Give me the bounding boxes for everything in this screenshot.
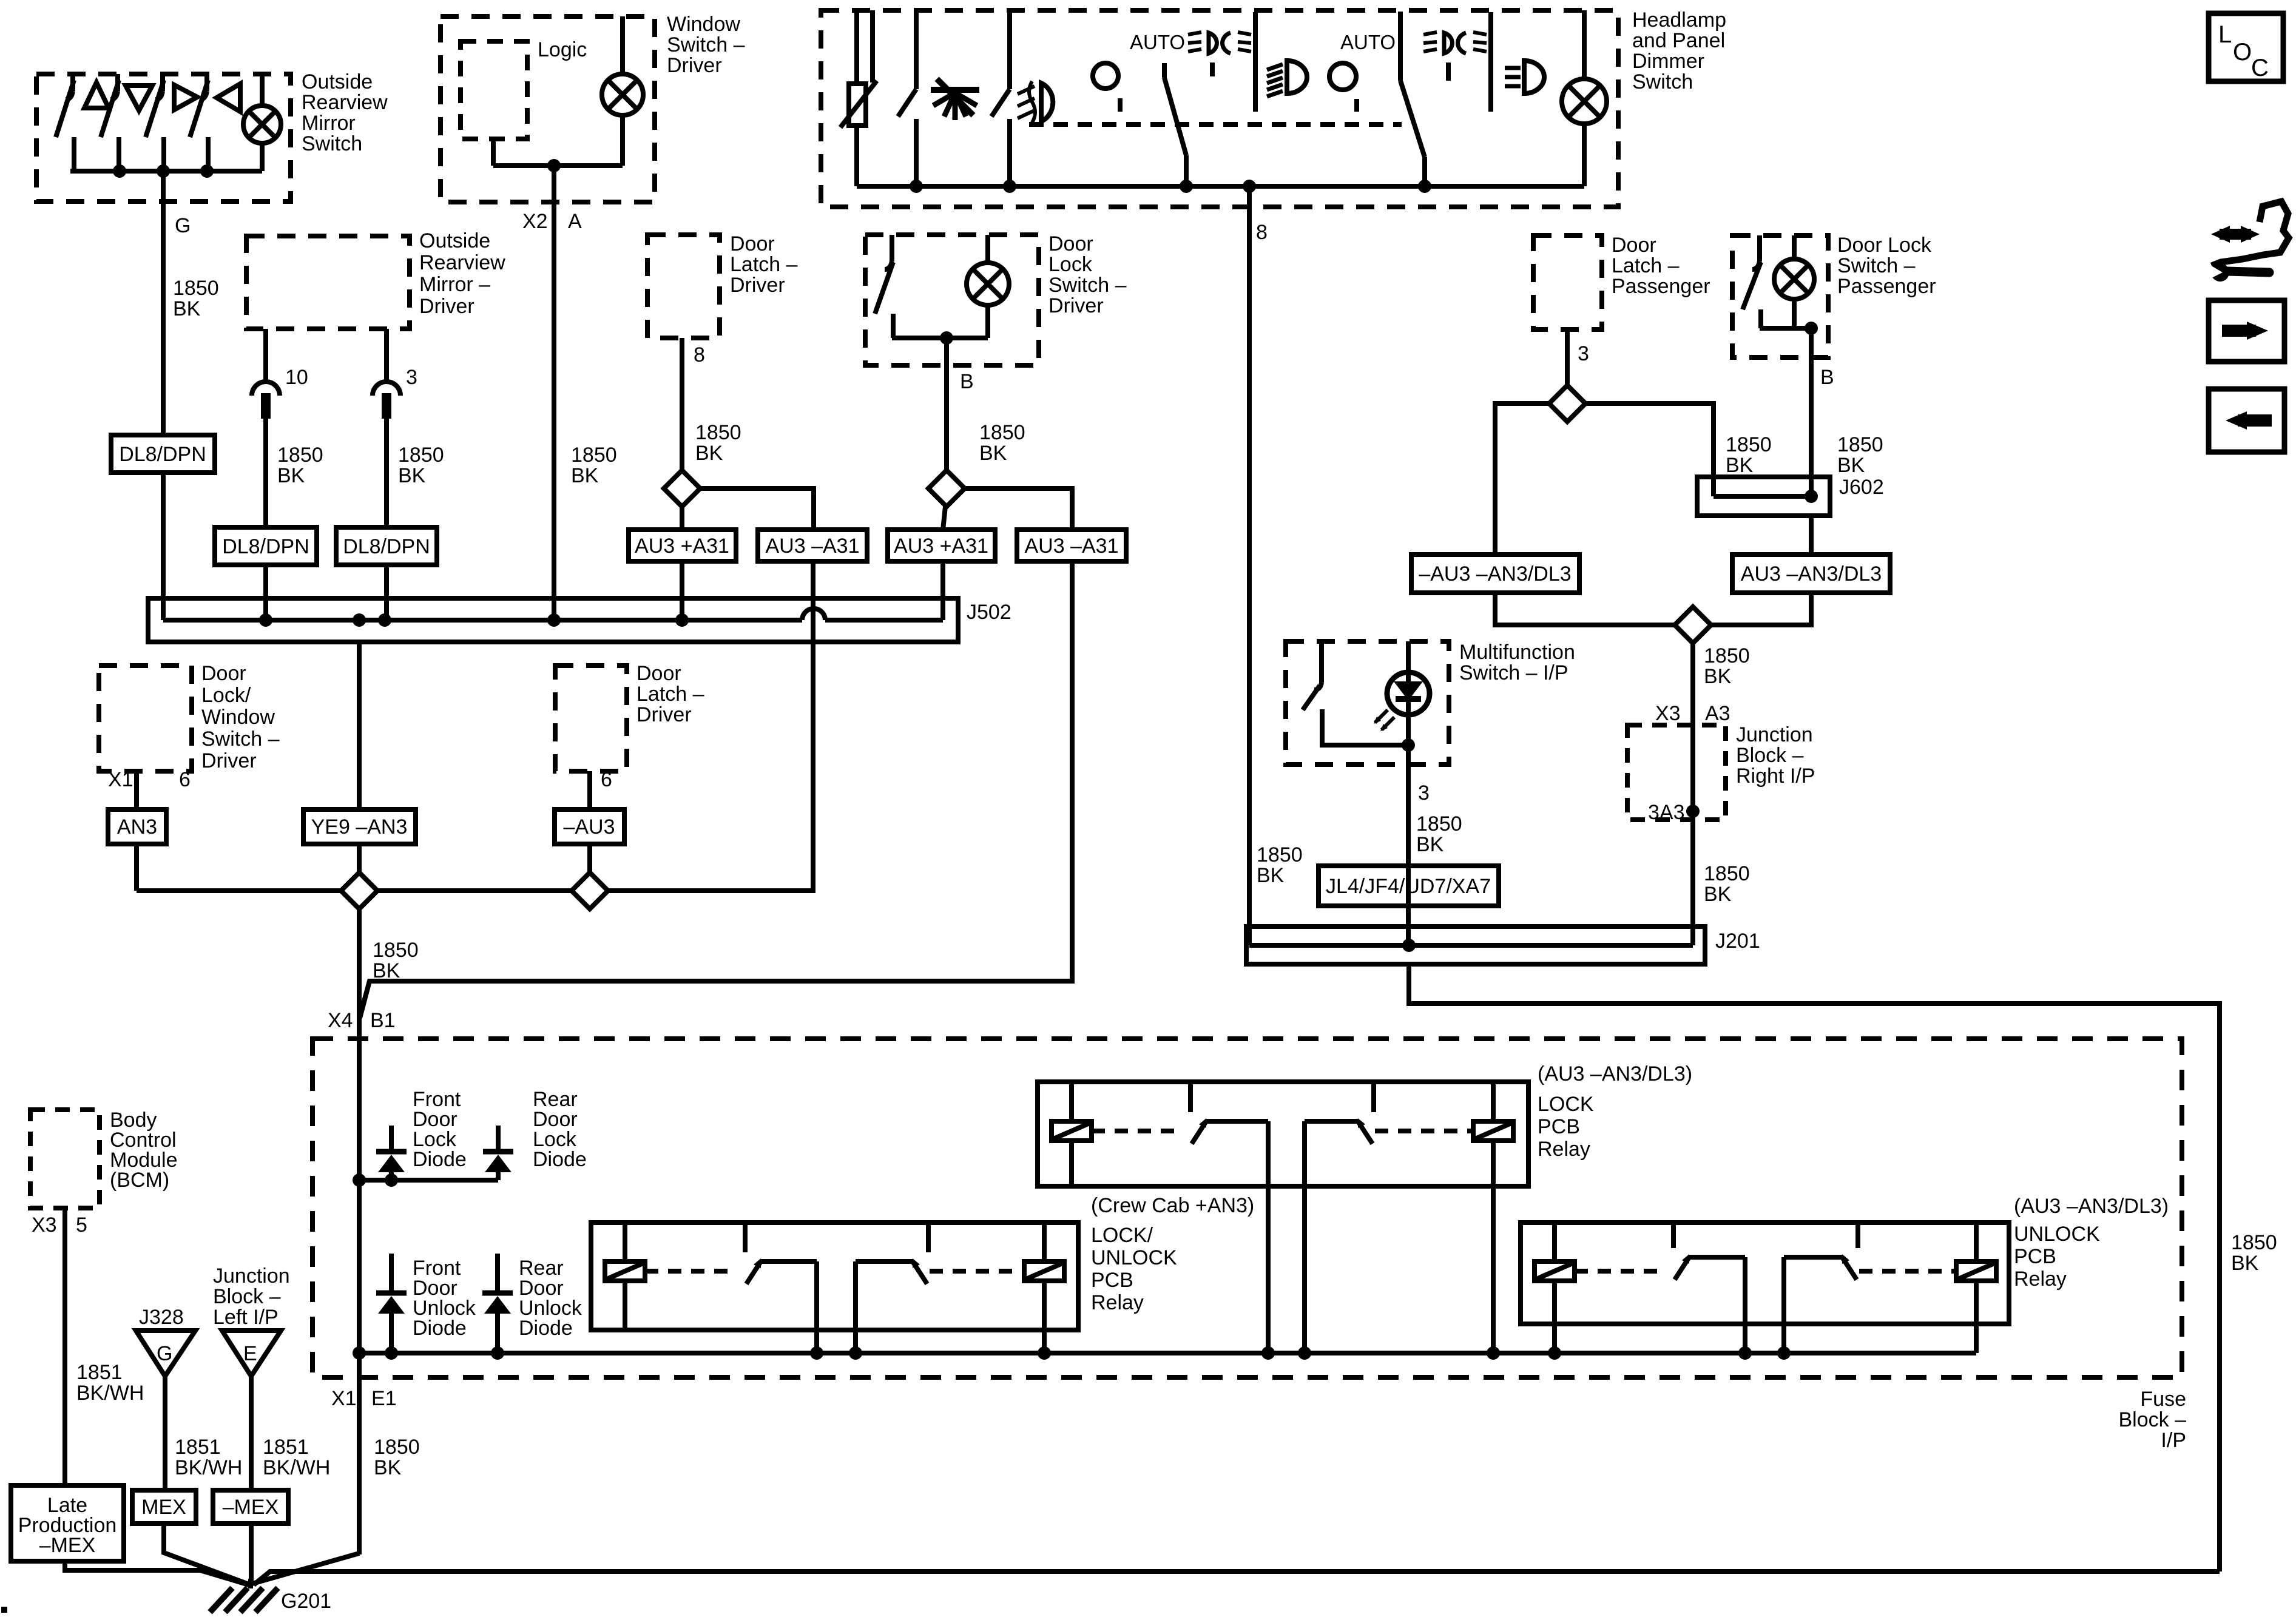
svg-text:1850: 1850 [1704, 862, 1750, 885]
svg-text:(AU3 –AN3/DL3): (AU3 –AN3/DL3) [2014, 1195, 2169, 1218]
splice diamond [1549, 385, 1585, 422]
headlamp switch illumination lamp [1562, 79, 1607, 124]
svg-text:Outside: Outside [419, 229, 490, 252]
svg-text:BK: BK [1257, 864, 1285, 887]
svg-text:3: 3 [1418, 781, 1430, 805]
connector JL4/JF4/UD7/XA7 [1319, 866, 1499, 906]
svg-text:LOCK: LOCK [1538, 1093, 1594, 1116]
wire YE9 to diamond [357, 844, 362, 874]
svg-text:Block –: Block – [1736, 744, 1804, 767]
svg-text:PCB: PCB [1538, 1115, 1580, 1138]
wire -AU3-AN3/DL3 to diamond [1495, 593, 1675, 625]
svg-text:1850: 1850 [1837, 433, 1883, 456]
svg-text:BK/WH: BK/WH [76, 1382, 144, 1405]
wire to 6 [587, 771, 592, 809]
late production -MEX box [11, 1485, 124, 1561]
junction dot [1038, 1346, 1051, 1360]
wire J201 to ground loop [1409, 964, 2220, 1571]
svg-text:Window: Window [667, 13, 740, 36]
rear door unlock diode [495, 1254, 500, 1293]
svg-text:1850: 1850 [1416, 812, 1462, 836]
body control module (dashed box) [30, 1110, 100, 1208]
svg-text:B: B [1820, 366, 1834, 389]
svg-text:Relay: Relay [2014, 1268, 2067, 1291]
svg-text:A3: A3 [1705, 702, 1730, 725]
junction dot [1298, 1346, 1311, 1360]
J201 internal bus [1247, 927, 1252, 945]
junction dot [547, 613, 561, 627]
window switch internal bus [493, 163, 623, 168]
door lock switch driver (dashed box) [865, 235, 1039, 365]
junction dot [157, 164, 170, 178]
svg-text:X1: X1 [108, 768, 133, 791]
junction dot [1180, 180, 1193, 193]
svg-text:X3: X3 [32, 1214, 57, 1237]
ground G201 symbol [248, 1579, 253, 1588]
splice pack J602 [1697, 477, 1830, 516]
svg-text:Junction: Junction [213, 1264, 290, 1288]
svg-text:Door Lock: Door Lock [1837, 234, 1932, 257]
svg-text:1850: 1850 [173, 277, 219, 300]
LOCK relay common wire 2 [1302, 1186, 1307, 1353]
svg-text:1850: 1850 [374, 1436, 420, 1459]
svg-text:–MEX: –MEX [39, 1534, 96, 1557]
connector AU3 -AN3/DL3 [1732, 555, 1890, 593]
junction dot [378, 613, 391, 627]
svg-text:Diode: Diode [413, 1148, 467, 1171]
svg-text:J201: J201 [1715, 930, 1760, 953]
window switch driver (dashed box) [441, 16, 655, 202]
wire to AU3-A31 2 [965, 488, 1072, 530]
svg-text:1850: 1850 [1704, 644, 1750, 667]
parking indicator [1329, 63, 1356, 90]
lock switch driver contact [890, 235, 894, 261]
svg-text:Block –: Block – [2119, 1408, 2187, 1431]
svg-text:UNLOCK: UNLOCK [1091, 1246, 1177, 1269]
junction dot [1402, 939, 1416, 952]
svg-text:G201: G201 [281, 1590, 331, 1613]
DRL indicator symbol 2 [1444, 33, 1452, 53]
svg-text:J502: J502 [967, 601, 1011, 624]
connector AN3 [108, 809, 166, 844]
UNLOCK relay common wire 2 [1781, 1324, 1786, 1353]
LOCK relay common wire 1 [1266, 1186, 1271, 1353]
svg-text:AU3 –AN3/DL3: AU3 –AN3/DL3 [1741, 562, 1882, 586]
svg-text:1851: 1851 [263, 1436, 309, 1459]
svg-text:J328: J328 [139, 1306, 184, 1329]
connector AU3 +A31 [629, 530, 736, 561]
svg-text:6: 6 [601, 768, 612, 791]
svg-text:Diode: Diode [533, 1148, 587, 1171]
fog indicator [1093, 63, 1118, 89]
wire to AU3+A31 2 [943, 507, 945, 530]
svg-text:Driver: Driver [419, 295, 474, 318]
junction connector E (triangle) [222, 1331, 281, 1376]
svg-text:Door: Door [1612, 234, 1656, 257]
svg-text:Lock/: Lock/ [201, 684, 251, 707]
junction dot [385, 1346, 398, 1360]
junction dot [1686, 805, 1700, 818]
svg-text:Latch –: Latch – [730, 253, 798, 276]
junction dot [810, 1346, 823, 1360]
car direction icon [2220, 229, 2251, 240]
svg-text:1850: 1850 [979, 421, 1025, 444]
svg-text:Driver: Driver [730, 274, 785, 297]
svg-text:BK: BK [1704, 883, 1732, 906]
connector AU3 -A31 2 [1017, 530, 1126, 561]
wire 8 to J201 [1247, 186, 1252, 945]
svg-text:Passenger: Passenger [1837, 275, 1936, 298]
connector MEX [132, 1490, 196, 1524]
wire latch pin 3 [1565, 329, 1570, 387]
lock diode bus [359, 1178, 498, 1183]
svg-text:Logic: Logic [538, 38, 587, 61]
wire AU3-A31 2 down [360, 561, 1072, 1018]
svg-text:(BCM): (BCM) [110, 1169, 169, 1192]
svg-text:Relay: Relay [1091, 1291, 1144, 1314]
splice pack J201 [1246, 927, 1705, 964]
rear door lock diode [496, 1126, 501, 1152]
door latch driver lower (dashed box) [555, 666, 627, 771]
splice diamond [1675, 607, 1711, 643]
mirror switch arrow down [126, 86, 152, 110]
page mark [1, 1607, 7, 1613]
J502 internal bus [161, 598, 166, 620]
wire X4 to unlock bus [357, 1180, 362, 1353]
wire pin10 to J502 [263, 565, 268, 620]
svg-text:1850: 1850 [373, 939, 419, 962]
junction dot [1243, 180, 1256, 193]
fuse block I/P (dashed box) [312, 1039, 2182, 1377]
junction dot [1805, 490, 1818, 503]
connector -MEX [213, 1490, 288, 1524]
svg-text:BK: BK [979, 442, 1007, 465]
svg-text:Switch –: Switch – [667, 33, 745, 56]
svg-text:1851: 1851 [175, 1436, 221, 1459]
forward arrow box [2209, 300, 2284, 362]
wire E to -MEX [249, 1376, 254, 1490]
svg-text:Junction: Junction [1736, 723, 1813, 746]
wire AU3+A31 to J502 [680, 561, 684, 620]
svg-text:Block –: Block – [213, 1285, 281, 1308]
wire to J602 [1585, 403, 1714, 496]
wire J602 to AU3-AN3/DL3 [1809, 516, 1814, 555]
svg-text:Passenger: Passenger [1612, 275, 1710, 298]
mirror driver pin 10 [263, 329, 268, 382]
junction block right I/P (dashed box) [1627, 725, 1726, 820]
wire G to MEX [163, 1376, 167, 1490]
door latch driver (dashed box) [647, 235, 720, 338]
svg-text:1851: 1851 [76, 1361, 123, 1384]
junction dot [849, 1346, 862, 1360]
junction dot [259, 613, 272, 627]
LOCK relay coil2 wire [1491, 1186, 1496, 1353]
svg-text:–AU3: –AU3 [563, 815, 615, 839]
svg-text:1850: 1850 [1257, 843, 1303, 866]
wire X3-5 [62, 1208, 67, 1485]
logic output wire [491, 139, 496, 166]
svg-text:JL4/JF4/UD7/XA7: JL4/JF4/UD7/XA7 [1326, 875, 1491, 898]
svg-text:Door: Door [730, 232, 775, 255]
door lock/window switch driver (dashed box) [99, 666, 192, 771]
headlamp switch contact bar [1253, 12, 1258, 112]
door lock switch passenger (dashed box) [1732, 235, 1828, 357]
low beam symbol [1287, 61, 1307, 93]
junction dot [910, 180, 923, 193]
LOCK/UNLOCK PCB relay [591, 1223, 1078, 1330]
fog lamp switch [1007, 10, 1012, 89]
LOCK PCB relay [1038, 1082, 1528, 1186]
svg-text:L: L [2218, 21, 2232, 48]
svg-text:8: 8 [694, 343, 705, 366]
svg-text:BK: BK [1726, 454, 1754, 477]
junction dot [491, 1346, 504, 1360]
UNLOCK relay coil2 wire [1974, 1324, 1979, 1353]
branch to AU3-A31 2 [360, 981, 370, 1017]
svg-text:Headlamp: Headlamp [1632, 8, 1726, 32]
headlamp switch blade [1398, 12, 1403, 81]
splice bus 1850 [137, 888, 813, 893]
front fog lamps symbol [1041, 83, 1053, 121]
junction dot [1487, 1346, 1500, 1360]
svg-text:DL8/DPN: DL8/DPN [222, 535, 309, 558]
svg-text:BK: BK [2231, 1252, 2259, 1275]
ground wire from fuse block right [254, 1571, 2220, 1585]
svg-text:–AU3 –AN3/DL3: –AU3 –AN3/DL3 [1419, 562, 1571, 586]
junction dot [1548, 1346, 1561, 1360]
svg-text:A: A [568, 210, 582, 233]
svg-text:Diode: Diode [413, 1317, 467, 1340]
mirror switch internal bus [70, 169, 262, 174]
junction dot [1738, 1346, 1752, 1360]
svg-text:Latch –: Latch – [1612, 254, 1680, 277]
wire 1850 BK to fuse block X4-B1 [357, 908, 362, 1180]
junction dot [1805, 322, 1818, 335]
svg-text:Switch: Switch [1632, 70, 1693, 93]
junction dot [1261, 1346, 1275, 1360]
svg-text:Dimmer: Dimmer [1632, 50, 1704, 73]
svg-text:Latch –: Latch – [636, 683, 704, 706]
svg-text:Driver: Driver [1048, 294, 1104, 317]
LOC reference box [2209, 13, 2283, 81]
UNLOCK PCB relay [1521, 1223, 2009, 1324]
wire from late production box [65, 1561, 249, 1585]
svg-text:BK: BK [373, 959, 400, 982]
svg-text:Switch –: Switch – [1837, 254, 1916, 277]
svg-text:Relay: Relay [1538, 1138, 1590, 1161]
connector -AU3 [555, 809, 624, 844]
svg-text:UNLOCK: UNLOCK [2014, 1223, 2100, 1246]
multifunction switch I/P (dashed box) [1286, 641, 1449, 765]
headlamp switch internal bus [857, 184, 1584, 189]
svg-text:Door: Door [636, 662, 681, 685]
svg-text:5: 5 [76, 1214, 87, 1237]
svg-text:DL8/DPN: DL8/DPN [343, 535, 430, 558]
svg-text:Driver: Driver [201, 749, 257, 772]
interior lamps symbol [931, 87, 979, 93]
front door lock diode [389, 1126, 394, 1152]
svg-text:3: 3 [1578, 342, 1589, 365]
svg-text:AUTO: AUTO [1340, 31, 1396, 53]
mirror switch contact 4 [204, 74, 209, 91]
svg-text:PCB: PCB [2014, 1245, 2056, 1268]
svg-text:BK: BK [1704, 665, 1732, 688]
svg-text:BK: BK [277, 464, 305, 487]
svg-text:B1: B1 [370, 1009, 396, 1032]
lock switch passenger bus [1760, 326, 1811, 331]
junction dot [353, 1173, 366, 1187]
svg-text:Switch: Switch [302, 132, 362, 155]
window switch illumination lamp [602, 74, 643, 115]
svg-text:J602: J602 [1839, 476, 1884, 499]
svg-text:Door: Door [201, 662, 246, 685]
mirror switch arrow up [84, 83, 109, 108]
svg-text:3: 3 [406, 366, 417, 389]
wire MEX to ground [164, 1524, 249, 1584]
wire X2-A to J502 [552, 166, 556, 620]
svg-text:BK: BK [398, 464, 426, 487]
svg-text:1850: 1850 [2231, 1231, 2277, 1254]
svg-text:BK: BK [374, 1456, 402, 1479]
mirror switch arrow right [174, 85, 197, 110]
svg-text:1850: 1850 [277, 444, 323, 467]
junction dot [353, 1346, 366, 1360]
junction dot [1003, 180, 1016, 193]
logic block (inner dashed box) [461, 41, 527, 139]
svg-text:C: C [2251, 55, 2269, 81]
svg-text:X4: X4 [328, 1009, 353, 1032]
auto position contact [1162, 63, 1167, 78]
svg-text:AUTO: AUTO [1130, 31, 1185, 53]
svg-text:BK: BK [571, 464, 599, 487]
lock switch driver bus [892, 336, 988, 340]
wire AU3-AN3/DL3 to diamond [1711, 593, 1811, 625]
door latch passenger (dashed box) [1533, 235, 1602, 329]
svg-text:1850: 1850 [571, 444, 617, 467]
DRL indicator symbol [1209, 33, 1217, 53]
headlamp switch contact bar 2 [1488, 12, 1493, 112]
junction dot [353, 613, 366, 627]
svg-text:AU3 –A31: AU3 –A31 [1025, 535, 1119, 558]
svg-text:Driver: Driver [667, 54, 722, 77]
lock switch passenger lamp [1774, 259, 1814, 299]
svg-text:G: G [157, 1342, 172, 1365]
svg-text:10: 10 [285, 366, 308, 389]
svg-text:1850: 1850 [1726, 433, 1772, 456]
svg-text:Mirror: Mirror [302, 112, 356, 135]
svg-text:Driver: Driver [636, 703, 692, 726]
svg-text:BK: BK [1837, 454, 1865, 477]
svg-text:I/P: I/P [2161, 1429, 2186, 1452]
wire LED to JL4 [1406, 745, 1411, 945]
panel dimmer rheostat [849, 84, 866, 126]
svg-text:(Crew Cab +AN3): (Crew Cab +AN3) [1091, 1194, 1254, 1217]
svg-text:Left I/P: Left I/P [213, 1306, 279, 1329]
wire AN3 to splice bus [134, 844, 139, 891]
wire 1850 BK to J502 [161, 473, 166, 620]
svg-text:AN3: AN3 [117, 815, 157, 839]
svg-text:X2: X2 [522, 210, 548, 233]
junction dot [675, 613, 689, 627]
splice diamond [572, 873, 608, 909]
svg-text:BK/WH: BK/WH [175, 1456, 242, 1479]
svg-text:G: G [175, 214, 191, 237]
UNLOCK relay coil1 wire [1552, 1324, 1557, 1353]
fuse DL8/DPN (pin 3) [336, 527, 437, 565]
svg-text:Outside: Outside [302, 70, 373, 93]
splice diamond [928, 470, 965, 507]
svg-text:E: E [243, 1342, 257, 1365]
wire diamond to junction block [1690, 643, 1695, 945]
svg-text:DL8/DPN: DL8/DPN [119, 443, 206, 466]
svg-text:B: B [960, 370, 974, 393]
connector AU3 +A31 2 [888, 530, 995, 561]
svg-text:and Panel: and Panel [1632, 29, 1725, 52]
svg-text:BK/WH: BK/WH [263, 1456, 330, 1479]
svg-text:8: 8 [1256, 221, 1268, 244]
wire E1 into ground funnel [252, 1553, 359, 1584]
svg-text:3A3: 3A3 [1648, 801, 1685, 824]
svg-text:–MEX: –MEX [223, 1496, 279, 1519]
back arrow box [2209, 389, 2284, 452]
svg-text:1850: 1850 [398, 444, 444, 467]
svg-text:BK: BK [173, 297, 201, 320]
svg-text:Multifunction: Multifunction [1459, 641, 1575, 664]
wire lock switch B [944, 338, 949, 470]
svg-text:Door: Door [1048, 232, 1093, 255]
svg-text:Mirror –: Mirror – [419, 273, 490, 296]
junction dot [547, 159, 561, 172]
wire to X1-6 [134, 771, 139, 809]
wire to AU3+A31 [680, 507, 684, 530]
lock switch driver lamp [967, 263, 1009, 305]
junction dot [940, 331, 953, 345]
wire to AU3-A31 [700, 488, 814, 530]
multifunction switch contact [1319, 641, 1324, 683]
junction dot [113, 164, 126, 178]
wire AU3-A31 down [137, 561, 813, 891]
LOCK/UNLOCK relay common wire 2 [853, 1330, 858, 1353]
lock switch passenger contact [1757, 235, 1762, 261]
svg-text:1850: 1850 [695, 421, 741, 444]
fuse DL8/DPN (driver) [111, 435, 215, 473]
UNLOCK relay common wire 1 [1743, 1324, 1747, 1353]
wire latch pin 8 [680, 338, 684, 470]
junction dot [200, 164, 214, 178]
svg-text:Fuse: Fuse [2140, 1388, 2186, 1411]
junction dot [385, 1173, 398, 1187]
outside rearview mirror switch (dashed box) [36, 74, 291, 201]
wire to -AU3-AN3/DL3 [1495, 403, 1549, 555]
J602 internal bus [1714, 494, 1811, 499]
wire G from mirror switch to DL8/DPN [161, 171, 166, 435]
outside rearview mirror driver (dashed box) [246, 236, 410, 329]
connector AU3 -A31 [758, 530, 867, 561]
wire E1 to ground [357, 1353, 362, 1555]
mirror switch contact 1 [70, 74, 75, 91]
splice diamond [664, 470, 700, 507]
LOCK/UNLOCK relay coil2 wire [1042, 1330, 1047, 1353]
fuse DL8/DPN (pin 10) [215, 527, 317, 565]
svg-text:X3: X3 [1655, 702, 1681, 725]
svg-text:YE9 –AN3: YE9 –AN3 [311, 815, 408, 839]
connector -AU3 -AN3/DL3 [1411, 555, 1579, 593]
svg-text:AU3 –A31: AU3 –A31 [766, 535, 860, 558]
svg-text:E1: E1 [371, 1387, 397, 1410]
mirror switch contact 2 [115, 74, 120, 91]
mirror switch contact 3 [160, 74, 165, 91]
junction connector J328 (triangle G) [136, 1331, 195, 1376]
